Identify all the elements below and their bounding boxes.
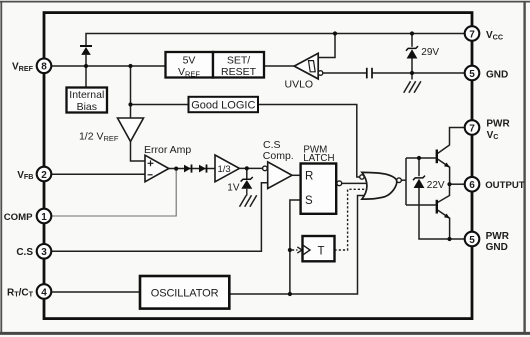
- pin 5 GND: [465, 66, 509, 81]
- svg-text:1/3: 1/3: [218, 164, 231, 175]
- svg-text:SET/: SET/: [227, 55, 250, 67]
- junction: PWR GND node: [447, 237, 451, 241]
- zener 29V: [406, 46, 439, 58]
- transistor Q2 (lower NPN): [437, 200, 450, 219]
- svg-text:VFB: VFB: [17, 170, 33, 181]
- wire: half-vref to error amp + input: [131, 142, 146, 162]
- wire: VCC top rail: [86, 34, 472, 46]
- wire: output node to pin6: [450, 183, 465, 185]
- junction: rail/29V zener: [410, 31, 414, 35]
- junction: error amp output node: [174, 167, 178, 171]
- junction: oscillator output node: [288, 292, 292, 296]
- ground (1V zener): [240, 195, 257, 207]
- svg-text:1V: 1V: [227, 182, 240, 193]
- svg-text:Comp.: Comp.: [263, 150, 294, 162]
- wire: good logic output to gate top input: [258, 105, 360, 178]
- svg-text:1: 1: [41, 212, 47, 223]
- svg-text:GND: GND: [486, 70, 508, 81]
- wire: capacitor to GND pin5: [372, 72, 472, 74]
- svg-text:22V: 22V: [427, 180, 445, 191]
- svg-text:8: 8: [41, 62, 47, 73]
- wire: lower collector to output node: [438, 184, 450, 202]
- wire: oscillator output to gate bottom input: [229, 196, 367, 295]
- wire: RT/CT pin4 to oscillator: [51, 291, 140, 293]
- wire: VFB pin2 to error amp - input: [51, 173, 146, 175]
- svg-text:LATCH: LATCH: [303, 153, 334, 164]
- buffer 1/2 VREF (triangle down): [79, 118, 144, 143]
- wire: error amp output through diodes: [169, 168, 215, 170]
- wire: 22V zener top stem: [418, 158, 420, 176]
- wire: CS pin3 to comparator input: [51, 183, 268, 252]
- wire: CS comp output to latch R: [292, 174, 301, 176]
- Good LOGIC box: [189, 97, 259, 112]
- svg-text:COMP: COMP: [4, 212, 33, 223]
- wire: internal bias stem: [85, 66, 87, 88]
- pin 2 VFB: [17, 167, 51, 182]
- svg-text:OSCILLATOR: OSCILLATOR: [151, 287, 219, 299]
- svg-text:GND: GND: [486, 242, 508, 253]
- diode D1 (VREF to rail): [80, 46, 92, 55]
- svg-text:Internal: Internal: [69, 89, 104, 101]
- wire: 22V zener to pwr gnd node: [419, 188, 450, 239]
- junction: 22V zener/base line: [417, 156, 421, 160]
- junction: 29V zener/GND line: [410, 71, 414, 75]
- wire: latch output to gate: [342, 182, 369, 184]
- diode D2: [184, 165, 192, 173]
- wire: diode anode stem: [85, 55, 87, 66]
- pin 1 COMP: [4, 209, 52, 224]
- zener 22V: [413, 176, 445, 191]
- arrowhead into T clock: [297, 247, 302, 253]
- wire: 1/3 output to CS comp: [239, 167, 262, 169]
- wire: latch S input from oscillator: [290, 200, 301, 294]
- wire: branch to 1/2 Vref buffer: [130, 66, 132, 118]
- svg-text:7: 7: [469, 29, 475, 40]
- wire: gate output to driver riser: [401, 179, 406, 181]
- svg-text:VC: VC: [487, 130, 499, 141]
- IC boundary box: [44, 13, 472, 319]
- wire: driver riser: [405, 158, 407, 205]
- svg-text:Bias: Bias: [77, 101, 97, 113]
- wire: UVLO bubble to capacitor: [323, 72, 367, 74]
- wire: UVLO input from rail: [318, 34, 335, 58]
- 5V VREF box: [166, 52, 214, 78]
- zener 1V: [227, 177, 253, 196]
- junction: VREF/diode node: [84, 64, 88, 68]
- pin 5 PWR GND: [465, 231, 510, 253]
- wire: 1V zener stem: [246, 168, 248, 179]
- wire: pin7 PWR VC to upper collector: [438, 128, 465, 154]
- transistor Q1 (upper NPN): [437, 150, 450, 168]
- svg-text:3: 3: [41, 247, 47, 258]
- wire: lower base line: [406, 204, 436, 206]
- T flip-flop box: [303, 236, 335, 261]
- junction: good logic tap: [128, 102, 132, 106]
- svg-text:29V: 29V: [421, 47, 439, 58]
- pin 7 VCC: [465, 26, 503, 41]
- pin 8 VREF: [12, 59, 51, 74]
- comparator C.S Comp: [263, 139, 294, 188]
- OSCILLATOR box: [140, 276, 229, 309]
- junction: VREF/half-vref branch: [128, 64, 132, 68]
- svg-text:VCC: VCC: [486, 30, 503, 41]
- Internal Bias box: [67, 88, 108, 114]
- wire: good logic input: [131, 104, 189, 106]
- pin 4 RT/CT: [7, 284, 51, 299]
- svg-text:4: 4: [41, 287, 47, 298]
- wire: upper emitter to output node: [438, 159, 450, 184]
- junction: clock tap to T: [288, 248, 292, 252]
- pin 3 C.S: [16, 244, 51, 259]
- svg-text:PWR: PWR: [486, 118, 510, 129]
- wire: dashed T output to gate: [335, 189, 367, 250]
- wire: pwr gnd node to pin5: [450, 238, 465, 240]
- svg-text:T: T: [318, 246, 325, 258]
- wire: dashed clock to T flip-flop: [292, 249, 298, 251]
- svg-text:C.S: C.S: [16, 247, 33, 258]
- svg-text:7: 7: [469, 123, 475, 134]
- svg-text:Good LOGIC: Good LOGIC: [191, 100, 255, 112]
- svg-text:2: 2: [41, 170, 47, 181]
- junction: 1V clamp node: [245, 166, 249, 170]
- svg-text:OUTPUT: OUTPUT: [485, 180, 525, 191]
- svg-text:S: S: [305, 195, 313, 207]
- capacitor: [367, 68, 372, 79]
- wire: UVLO output to set/reset: [264, 65, 294, 67]
- svg-text:VREF: VREF: [12, 62, 34, 73]
- svg-text:RT/CT: RT/CT: [7, 287, 34, 298]
- svg-text:5V: 5V: [183, 55, 196, 67]
- svg-text:5: 5: [469, 235, 475, 246]
- junction: OUTPUT node: [447, 182, 451, 186]
- svg-text:5: 5: [469, 69, 475, 80]
- PWM LATCH box U2: [301, 144, 342, 214]
- svg-text:6: 6: [469, 180, 475, 191]
- diode D3: [199, 165, 207, 173]
- amp 1/3 divider: [215, 155, 239, 182]
- junction: rail/UVLO input: [333, 31, 337, 35]
- svg-text:UVLO: UVLO: [285, 78, 314, 90]
- svg-text:R: R: [305, 170, 313, 182]
- ground (29V zener): [404, 81, 421, 93]
- comparator UVLO: [285, 53, 323, 90]
- wire: lower emitter to pwr gnd: [438, 210, 450, 239]
- wire: VREF line pin8 to 5V box: [51, 65, 166, 67]
- wire: upper base line: [406, 157, 436, 159]
- pin 7 PWR VC: [465, 118, 511, 141]
- svg-text:PWR: PWR: [486, 231, 510, 242]
- svg-text:RESET: RESET: [221, 66, 257, 78]
- wire: 29V zener to ground: [411, 58, 413, 79]
- NOR gate: [360, 172, 402, 199]
- pin 6 OUTPUT: [465, 177, 525, 192]
- wire: COMP feedback (thin): [51, 169, 176, 216]
- svg-text:Error Amp: Error Amp: [144, 144, 191, 156]
- SET/RESET box: [213, 52, 264, 78]
- wire: 29V zener stem top: [411, 34, 413, 47]
- op-amp Error Amp: [144, 144, 191, 182]
